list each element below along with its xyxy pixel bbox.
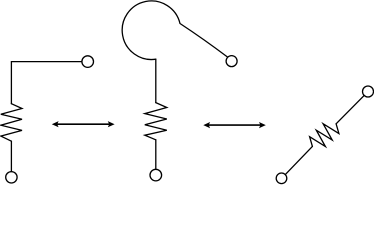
wire upper lead right resistor: [336, 95, 364, 123]
wire bottom lead left resistor: [10, 141, 12, 171]
wire bottom lead middle resistor: [155, 140, 157, 170]
node terminal top-left (open circle): [82, 56, 94, 68]
equivalence arrow 1 (double-headed): [52, 121, 115, 127]
resistor R1 (left, vertical zigzag): [1, 104, 22, 142]
node terminal middle-top (open circle): [226, 56, 237, 67]
wire lower lead right resistor: [285, 146, 312, 174]
node terminal middle-bottom (open circle): [150, 169, 162, 181]
wire top lead left resistor: [11, 62, 82, 104]
resistor R2 (middle, vertical zigzag): [145, 103, 167, 140]
wire loop of middle resistor top lead: [122, 1, 227, 60]
node terminal right-bottom (open circle): [276, 173, 287, 184]
wire middle vertical lead: [155, 59, 157, 102]
node terminal right-top (open circle): [363, 86, 374, 97]
node terminal bottom-left (open circle): [6, 172, 17, 183]
equivalence arrow 2 (double-headed): [203, 122, 265, 128]
resistor R3 (right, diagonal zigzag): [310, 124, 339, 147]
